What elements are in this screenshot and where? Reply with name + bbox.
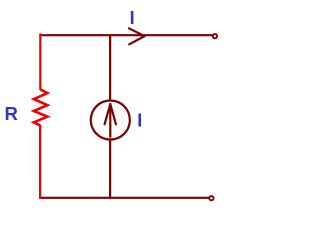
- wire left vertical lower lead: [39, 125, 41, 199]
- current source arrow: [105, 104, 116, 137]
- wire middle branch lower: [109, 139, 111, 199]
- svg-text:I: I: [130, 8, 135, 28]
- wire bottom horizontal: [40, 197, 209, 199]
- resistor R zigzag: [34, 90, 48, 126]
- arrowhead current I direction: [129, 28, 145, 44]
- terminal node bottom: [209, 196, 213, 200]
- svg-text:I: I: [137, 111, 142, 131]
- terminal node top: [213, 34, 217, 38]
- wire top horizontal: [40, 34, 213, 36]
- svg-text:R: R: [5, 103, 19, 124]
- current source U1 circle: [91, 101, 130, 140]
- wire left vertical upper lead: [39, 33, 41, 90]
- wire middle branch upper: [109, 34, 111, 101]
